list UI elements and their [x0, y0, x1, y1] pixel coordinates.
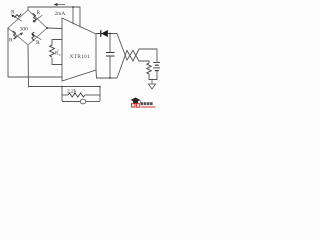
- ground: [149, 80, 156, 90]
- wire Rs top connection: [52, 40, 62, 46]
- wire battery bottom: [149, 71, 157, 80]
- wire bottom branch with adjuster: [62, 101, 80, 103]
- wire top output from IC corner through diode: [96, 33, 117, 35]
- resistor R (bridge arm bottom-left, strain gauge): [8, 28, 28, 45]
- capacitor C1: [106, 34, 115, 79]
- svg-text:2.2k: 2.2k: [67, 88, 77, 94]
- svg-text:S: S: [59, 53, 61, 57]
- wire 2.2k loop left rail: [61, 87, 63, 102]
- diode D1: [101, 30, 108, 37]
- watermark site name: [141, 102, 153, 105]
- wire Rs bottom connection: [52, 58, 62, 65]
- wire twisted pair conductor B (from capacitor node, to battery): [117, 49, 157, 78]
- node bridge right vertex junction: [46, 27, 48, 29]
- wire IC output right edge down to bottom output wire: [96, 70, 117, 78]
- resistor R (bridge arm bottom-right, strain gauge): [28, 28, 47, 45]
- watermark logo graduation cap: [131, 98, 141, 104]
- svg-text:R: R: [36, 40, 40, 46]
- watermark red caption: [141, 106, 156, 107]
- current arrow 2mA on top rail: [54, 3, 66, 6]
- wire twisted pair conductor A (from diode, to RL): [117, 34, 149, 64]
- svg-text:XTR101: XTR101: [70, 54, 90, 60]
- wire pin drop x=80: [79, 7, 81, 27]
- svg-text:R: R: [37, 10, 41, 16]
- wire bridge bottom vertex down: [27, 45, 30, 87]
- node capacitor bottom junction: [109, 77, 111, 79]
- wire top rail from bridge apex to IC pins: [28, 7, 80, 10]
- resistor R (bridge arm top-left, strain gauge): [8, 10, 28, 28]
- watermark red squares: [131, 103, 135, 107]
- wire bridge left vertex down and right to IC: [8, 28, 62, 77]
- svg-text:300: 300: [20, 27, 29, 33]
- node top rail junction at x=73: [72, 6, 74, 8]
- wire pin drop x=73: [72, 7, 74, 24]
- node junctions bottom loop: [61, 86, 63, 88]
- wire 2.2k loop right rail: [99, 87, 101, 102]
- resistor RL (load): [147, 63, 151, 77]
- wire 2.2k branch: [62, 94, 68, 96]
- op-amp U1 XTR101 block: [62, 18, 96, 81]
- meter M1 (circle on bottom branch): [80, 99, 85, 104]
- svg-text:2mA: 2mA: [55, 11, 66, 17]
- svg-text:R: R: [9, 38, 13, 44]
- node capacitor top junction: [109, 33, 111, 35]
- wire bridge right vertex to IC input: [47, 27, 62, 30]
- resistor Rs (span resistor): [50, 45, 55, 57]
- resistor R (bridge arm top-right, strain gauge): [28, 10, 47, 28]
- wire bottom rail under IC: [29, 86, 101, 88]
- battery B1: [153, 63, 160, 71]
- resistor 2.2k: [68, 93, 85, 97]
- svg-text:R: R: [11, 10, 15, 16]
